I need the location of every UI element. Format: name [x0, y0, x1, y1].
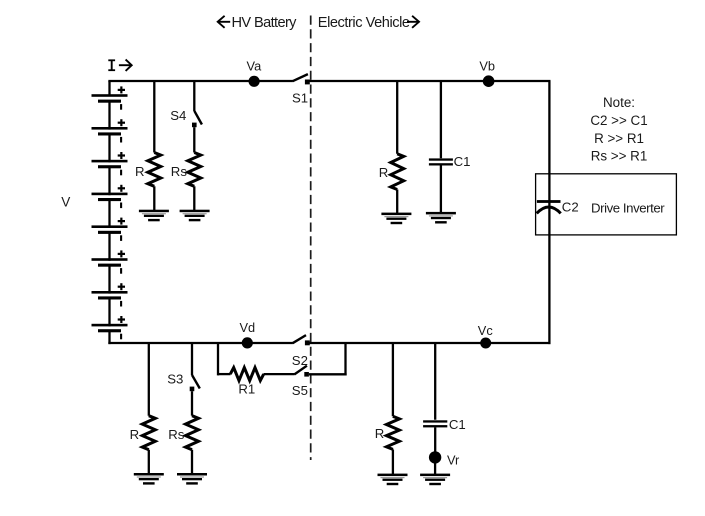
svg-text:Vc: Vc [478, 323, 494, 338]
svg-text:Va: Va [247, 59, 263, 74]
svg-text:S3: S3 [167, 371, 183, 386]
svg-text:R >> R1: R >> R1 [594, 131, 644, 146]
svg-text:HV Battery: HV Battery [232, 15, 298, 31]
svg-text:C2 >> C1: C2 >> C1 [590, 113, 647, 128]
svg-text:S5: S5 [292, 383, 308, 398]
svg-text:R: R [135, 164, 145, 179]
svg-text:Note:: Note: [603, 95, 635, 110]
svg-text:S4: S4 [170, 108, 186, 123]
svg-text:V: V [61, 194, 70, 209]
svg-text:R: R [130, 427, 140, 442]
svg-text:Rs: Rs [168, 427, 185, 442]
svg-text:Rs >> R1: Rs >> R1 [591, 148, 648, 163]
svg-text:Rs: Rs [171, 164, 188, 179]
svg-text:Electric Vehicle: Electric Vehicle [318, 15, 410, 31]
svg-text:R: R [375, 426, 385, 441]
svg-text:Vd: Vd [240, 320, 256, 335]
svg-text:R1: R1 [238, 382, 255, 397]
svg-text:Vr: Vr [447, 452, 460, 467]
svg-text:C2: C2 [562, 200, 579, 215]
svg-text:C1: C1 [454, 154, 471, 169]
svg-text:Vb: Vb [479, 59, 495, 74]
svg-text:S1: S1 [292, 90, 308, 105]
svg-text:Drive Inverter: Drive Inverter [591, 200, 665, 215]
svg-text:C1: C1 [449, 417, 466, 432]
svg-text:R: R [379, 165, 389, 180]
